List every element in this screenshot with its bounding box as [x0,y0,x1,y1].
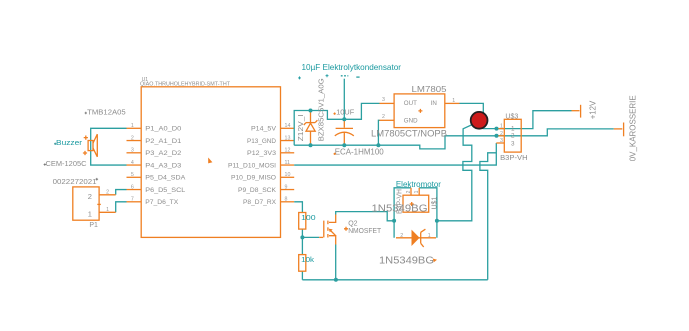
svg-text:6: 6 [131,184,134,190]
wire diagonal net from ERC point to motor pin1 [437,123,477,221]
U1 pin 3 P3_A2_D2 [127,148,182,157]
svg-text:P7_D6_TX: P7_D6_TX [145,199,178,206]
svg-text:1: 1 [131,123,134,129]
junction motor right [435,219,439,223]
svg-text:1: 1 [106,207,109,213]
svg-text:TMB12A05: TMB12A05 [87,108,126,117]
svg-text:1: 1 [500,124,503,130]
svg-text:GND: GND [404,117,418,124]
svg-text:1: 1 [414,190,420,193]
label 1N5349BG lower [379,255,437,266]
U1 pin 2 P2_A1_D1 [127,135,182,144]
svg-text:5: 5 [131,172,134,178]
zener diode D1 BZX85C5V1 [304,111,318,146]
svg-text:P4_A3_D3: P4_A3_D3 [145,162,181,169]
svg-text:2: 2 [131,135,134,141]
wire U$3 pin3 branch to bottom bus [480,153,496,280]
junction resistor node [300,235,304,239]
svg-text:13: 13 [285,135,291,141]
U2 pin 2 GND stub [380,114,395,120]
svg-text:B3P-VH: B3P-VH [500,153,527,162]
diode D2 1N5349BG [396,229,436,247]
wire LM7805 GND drop [378,120,379,145]
svg-text:P1_A0_D0: P1_A0_D0 [145,126,181,133]
U2 pin 1 IN stub [445,98,460,104]
svg-text:1: 1 [88,209,92,218]
svg-text:8: 8 [285,197,288,203]
svg-text:P6_D5_SCL: P6_D5_SCL [145,187,185,194]
svg-text:OUT: OUT [404,100,417,107]
svg-text:2: 2 [400,233,403,239]
svg-text:Elektromotor: Elektromotor [396,180,441,189]
wire U1 pin8 to resistor R1 [294,202,302,213]
svg-text:Buzzer: Buzzer [56,140,83,147]
IC U1 body [140,77,281,238]
svg-text:2: 2 [511,133,515,140]
svg-text:10µF Elektrolytkondensator: 10µF Elektrolytkondensator [302,62,402,72]
svg-text:P11_D10_MOSI: P11_D10_MOSI [228,162,276,169]
svg-text:+12V: +12V [588,100,597,119]
svg-text:ECA-1HM100: ECA-1HM100 [335,148,385,157]
motor connector U$1 B3P-VH [403,188,429,212]
power +12V [572,100,598,119]
svg-text:3: 3 [131,148,134,154]
U1 pin 1 P1_A0_D0 [127,123,182,132]
wire buzzer loop (U1 pin1 / pin4 to buzzer) [91,128,127,165]
svg-text:0V_KAROSSERIE: 0V_KAROSSERIE [627,95,637,161]
capacitor C1 10uF [335,121,354,146]
junction 7805 gnd [376,143,380,147]
svg-text:1: 1 [428,233,431,239]
svg-text:Z12V_I: Z12V_I [296,114,305,141]
wire R2 to bus [301,271,303,280]
svg-text:CEM-1205C: CEM-1205C [46,159,88,168]
svg-text:P9_D8_SCK: P9_D8_SCK [238,187,276,194]
junction cap bottom [342,143,346,147]
U2 pin 3 OUT stub [380,97,395,103]
wire R1 to R2 node [301,229,303,255]
wire node to MOSFET gate [302,236,319,238]
wire P1 pin2 to U1 pin6 [116,190,127,195]
junction motor left [392,219,396,223]
resistor R2 10k [299,255,315,272]
svg-text:Q2: Q2 [348,221,357,228]
svg-text:LM7805: LM7805 [412,85,448,94]
svg-text:LM7805CT/NOPB: LM7805CT/NOPB [371,129,447,140]
svg-text:1N5349BG: 1N5349BG [379,255,434,266]
wire 10uF cap top stub [343,79,345,120]
svg-text:2: 2 [406,190,412,193]
svg-text:1N5349BG: 1N5349BG [372,203,428,214]
svg-text:2: 2 [382,114,385,120]
svg-text:BZX85C5V1_A0G: BZX85C5V1_A0G [317,78,326,141]
U1 pin 9 P9_D8_SCK [238,184,294,193]
label Buzzer [54,143,56,145]
U1 pin 8 P8_D7_RX [243,197,294,206]
label ECA-1HM100 [334,148,385,157]
svg-text:2: 2 [88,192,92,201]
wire MOSI net (U1 pin11 to U$3 pin3) [294,143,496,165]
buzzer LS1 speaker symbol [83,134,97,157]
svg-text:1: 1 [511,125,515,132]
junction U$3 pin2 [495,134,499,138]
wire 0V riser [497,129,614,136]
U1 pin 6 P6_D5_SCL [127,184,186,193]
U1 pin 13 P13_GND [247,135,294,144]
wire MOSFET source to bus [335,245,337,280]
svg-text:P13_GND: P13_GND [247,138,276,145]
U1 pin 5 P5_D4_SDA [127,172,186,181]
label 10UF [334,108,355,117]
transistor Q2 NMOSFET [319,215,348,245]
U1 pin 11 P11_D10_MOSI [228,160,294,169]
svg-text:U$3: U$3 [505,114,518,121]
net label end dashes [298,74,360,79]
svg-text:3: 3 [382,97,385,103]
wire GND bus (zener/cap bottoms to U$3 pin2) [294,136,496,149]
wire motor pin2 left drop to diode [394,188,411,238]
svg-text:IN: IN [431,100,437,107]
wire +5V net (LM7805 OUT to zener/cap tops and U1 pin14/13 column) [294,103,379,145]
wire +12V riser [497,111,572,129]
U1 pin 7 P7_D6_TX [127,197,179,206]
resistor R1 100 [299,213,316,230]
wire bottom GND bus [302,279,487,281]
svg-text:P8_D7_RX: P8_D7_RX [243,199,276,206]
svg-text:3: 3 [511,140,515,147]
U1 pin 14 P14_5V [251,123,294,132]
svg-text:0022272021: 0022272021 [53,179,97,186]
svg-text:9: 9 [285,184,288,190]
svg-text:2: 2 [106,190,109,196]
wire P1 pin1 to U1 pin7 [116,202,127,213]
svg-text:1: 1 [452,98,455,104]
svg-text:P12_3V3: P12_3V3 [247,150,276,157]
connector P1 [73,187,116,220]
junction source bus [334,278,338,282]
U1 pin 4 P4_A3_D3 [127,160,182,169]
svg-text:QIAO.THRUHOLEHYBRID-SMT-THT: QIAO.THRUHOLEHYBRID-SMT-THT [140,82,230,88]
svg-text:4: 4 [131,160,134,166]
svg-text:NMOSFET: NMOSFET [348,228,382,235]
power 0V_KAROSSERIE [614,95,638,161]
connector U$3 B3P-VH [496,119,521,152]
svg-text:11: 11 [285,160,291,166]
wire LM7805 IN to U$3 pin1 [460,103,497,128]
svg-text:14: 14 [285,123,291,129]
junction zener top [309,109,313,113]
svg-text:P14_5V: P14_5V [251,126,276,133]
svg-text:10UF: 10UF [336,108,354,117]
svg-text:3: 3 [500,138,503,144]
junction cap top [342,117,346,121]
regulator U2 LM7805 [394,94,445,128]
wire MOSFET drain to motor [336,212,394,221]
junction U$3 pin1 [495,127,499,131]
svg-text:P10_D9_MISO: P10_D9_MISO [231,175,276,182]
svg-text:U$1: U$1 [432,197,439,210]
U1 pin 10 P10_D9_MISO [231,172,294,181]
svg-text:P2_A1_D1: P2_A1_D1 [145,138,181,145]
svg-text:10: 10 [285,172,291,178]
label 0022272021 [53,178,99,186]
label TMB12A05 [85,112,87,114]
junction zener bottom [309,143,313,147]
svg-text:2: 2 [500,131,503,137]
svg-text:10k: 10k [301,255,314,264]
label CEM-1205C [44,163,46,165]
ERC error marker red circle [471,112,488,129]
svg-text:P1: P1 [89,222,98,229]
wire motor pin1 right drop to diode [419,188,437,238]
svg-text:100: 100 [301,213,316,222]
U1 pin 12 P12_3V3 [247,148,294,157]
svg-text:12: 12 [285,148,291,154]
svg-text:P5_D4_SDA: P5_D4_SDA [145,175,185,182]
svg-text:P3_A2_D2: P3_A2_D2 [145,150,181,157]
svg-text:7: 7 [131,197,134,203]
